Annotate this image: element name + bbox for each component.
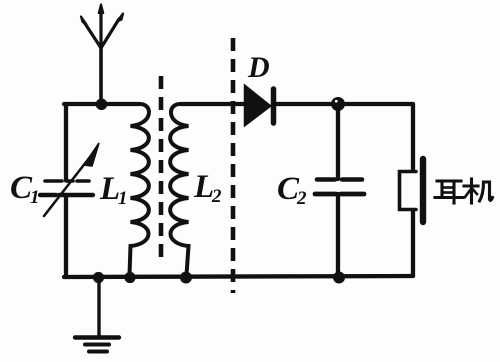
- label L1: [99, 171, 128, 209]
- label C2: [277, 171, 307, 209]
- wire diode to corner: [276, 102, 413, 106]
- capacitor C1 top plate: [45, 179, 89, 183]
- boundary dashed line: [231, 38, 236, 293]
- wire bottom horizontal: [64, 276, 413, 277]
- diode D: [245, 86, 274, 125]
- wire top-left horizontal: [64, 102, 139, 106]
- wire right vertical lower: [411, 211, 415, 276]
- svg-text:D: D: [247, 51, 270, 84]
- node ground junction: [93, 272, 104, 283]
- label L2: [193, 169, 222, 207]
- antenna: [81, 5, 123, 105]
- wire left vertical lower: [64, 195, 68, 277]
- svg-text:2: 2: [211, 186, 222, 207]
- capacitor C2 top plate: [317, 177, 362, 182]
- ground: [75, 280, 119, 352]
- node detector junction: [331, 97, 345, 111]
- node C2 bottom junction: [333, 272, 345, 284]
- label C1: [10, 170, 40, 208]
- 耳: [435, 181, 463, 203]
- wire L2 to diode: [181, 102, 244, 106]
- capacitor C2 wire lower: [336, 194, 340, 277]
- node L2 bottom junction: [180, 272, 192, 284]
- wire left vertical upper: [64, 104, 68, 180]
- wire right vertical upper: [411, 104, 415, 170]
- earphone: [400, 159, 424, 222]
- svg-text:L: L: [193, 169, 214, 205]
- inductor L1: [130, 104, 149, 275]
- node antenna junction: [96, 99, 108, 111]
- svg-text:L: L: [99, 171, 120, 207]
- 机: [464, 179, 493, 203]
- label 耳机 (earphone): [435, 179, 493, 203]
- capacitor C1 arrow: [44, 143, 99, 216]
- capacitor C2 wire upper: [336, 104, 340, 179]
- svg-text:2: 2: [296, 188, 307, 209]
- node L1 bottom junction: [124, 272, 135, 283]
- capacitor C1 bottom plate: [40, 193, 93, 197]
- svg-text:1: 1: [118, 188, 128, 209]
- svg-text:1: 1: [30, 187, 40, 208]
- capacitor C2 bottom plate: [315, 192, 364, 197]
- transformer core (dashed): [159, 76, 164, 257]
- inductor L2: [170, 104, 188, 275]
